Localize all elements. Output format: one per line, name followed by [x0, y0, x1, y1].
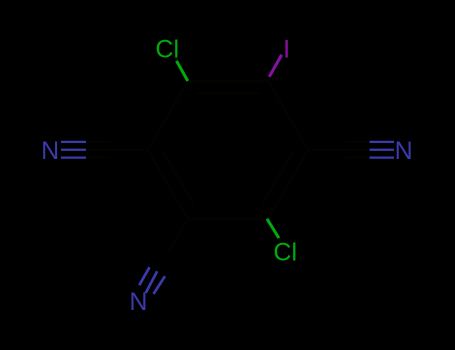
bond C2-I (iodine bond) — [269, 55, 282, 77]
wire C6 to nitrile carbon (left) — [110, 149, 148, 151]
svg-text:N: N — [41, 137, 59, 165]
benzene ring (carbon bonds, near-black olive) — [86, 81, 394, 252]
wire ring bond C5-C6 (lower-left edge) — [148, 150, 188, 219]
triple bond N half (right nitrile) — [370, 142, 395, 158]
wire ring bond C3-C4 (lower-right edge) — [268, 150, 308, 219]
svg-text:I: I — [283, 35, 290, 63]
wire carbon half of right triple bond — [345, 141, 394, 143]
wire C5 to nitrile carbon (bottom) — [168, 219, 188, 252]
svg-text:Cl: Cl — [155, 35, 179, 63]
bond C1-Cl (top-left chlorine bond) — [177, 61, 188, 81]
wire ring bond C1-C2 (top edge) — [188, 80, 268, 82]
triple bond N half (bottom nitrile, diagonal) — [139, 267, 165, 294]
wire ring bond C4-C5 (bottom edge) — [188, 218, 268, 220]
svg-text:N: N — [395, 137, 413, 165]
wire inner aromatic line lower-right — [262, 150, 294, 205]
svg-text:Cl: Cl — [273, 239, 297, 267]
triple bond N half (left nitrile) — [61, 142, 86, 158]
svg-text:N: N — [129, 288, 147, 316]
wire carbon half of left triple bond — [86, 141, 110, 143]
wire ring bond C6-C1 (upper-left edge) — [148, 81, 188, 150]
wire inner aromatic line lower-left — [162, 150, 194, 205]
wire ring bond C2-C3 (upper-right edge) — [268, 81, 308, 150]
wire C3 to nitrile carbon (right) — [308, 149, 346, 151]
bond C4-Cl (bottom-right chlorine bond) — [267, 219, 279, 238]
wire inner aromatic line top — [196, 92, 260, 94]
